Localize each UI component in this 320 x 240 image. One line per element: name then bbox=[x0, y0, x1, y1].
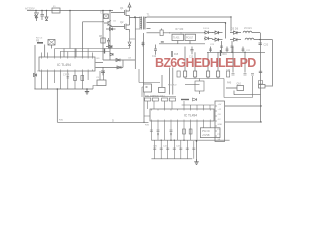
IC1 top pins bbox=[42, 49, 93, 58]
capacitor C12 bbox=[152, 45, 157, 59]
capacitor C5 bbox=[100, 12, 108, 19]
diode pair D12 bbox=[204, 31, 213, 40]
svg-text:Q1: Q1 bbox=[120, 7, 124, 10]
svg-text:C42: C42 bbox=[176, 146, 181, 148]
diode D8 snubber bbox=[110, 53, 113, 56]
wire IC2 upper links bbox=[144, 97, 214, 117]
svg-text:C9: C9 bbox=[96, 77, 100, 79]
svg-text:PW OK: PW OK bbox=[202, 130, 210, 133]
capacitor bank verticals bbox=[209, 41, 245, 52]
svg-text:PC: PC bbox=[153, 96, 156, 98]
rectifier diodes D13 D14 bbox=[212, 31, 223, 41]
svg-text:R30: R30 bbox=[59, 120, 64, 122]
wire sense drops bbox=[185, 47, 245, 73]
ground IC1 bbox=[85, 89, 89, 94]
wire secondary rail 2 bbox=[147, 22, 226, 38]
svg-text:+5VSB: +5VSB bbox=[202, 134, 210, 137]
IC2 bottom pins bbox=[151, 121, 210, 140]
svg-text:GND: GND bbox=[218, 124, 223, 126]
label specks bbox=[36, 21, 251, 148]
wire mid row bbox=[167, 32, 206, 33]
wire lower AC rail bbox=[83, 22, 105, 52]
svg-text:Q10: Q10 bbox=[237, 84, 242, 86]
transistor Q12 bbox=[195, 79, 204, 95]
inductor L1 bbox=[243, 31, 260, 33]
watermark bbox=[155, 56, 256, 70]
wire secondary mid line bbox=[147, 32, 160, 34]
capacitor C30 bbox=[226, 70, 262, 73]
wire secondary tap 3 bbox=[147, 28, 151, 30]
svg-text:Q2: Q2 bbox=[120, 21, 124, 24]
op-amp U2 IC TL494 bbox=[150, 109, 214, 121]
wire IC1 ground rail bbox=[34, 88, 93, 90]
resistor R15 bbox=[172, 51, 179, 57]
ground bottom bbox=[194, 159, 199, 165]
svg-text:D5 D6: D5 D6 bbox=[231, 28, 239, 31]
capacitor C6 primary bbox=[107, 38, 110, 45]
node label L5 bbox=[244, 27, 252, 30]
svg-text:R35: R35 bbox=[145, 125, 150, 127]
wire secondary rail 1 bbox=[145, 17, 231, 32]
svg-text:IC TL494: IC TL494 bbox=[57, 63, 71, 67]
transformer T1 bbox=[140, 13, 150, 30]
node AC input label bbox=[25, 7, 35, 11]
transistor Q10 bbox=[226, 84, 261, 95]
svg-text:C20: C20 bbox=[264, 44, 269, 47]
resistor row above IC2 bbox=[145, 95, 197, 101]
wire secondary to lower block bbox=[139, 69, 160, 83]
diode D2 to rail bbox=[128, 3, 131, 8]
resistor R5 bbox=[36, 40, 43, 43]
connector block PW bbox=[200, 128, 220, 138]
driver transformer T2 bbox=[48, 40, 55, 46]
svg-text:C22: C22 bbox=[246, 50, 251, 52]
svg-text:AC220V: AC220V bbox=[25, 7, 35, 11]
wire IC2 mid rail bbox=[151, 139, 229, 141]
svg-text:L5 C21: L5 C21 bbox=[244, 27, 252, 30]
node corner box bbox=[259, 85, 274, 89]
amplifier cluster mid right bbox=[232, 74, 247, 76]
resistor R8 primary bbox=[99, 36, 105, 43]
node label cluster R-C bbox=[176, 28, 184, 31]
svg-text:D3 D4: D3 D4 bbox=[203, 28, 210, 30]
transistor Q3 driver bbox=[104, 21, 111, 27]
resistor row mid right bbox=[177, 71, 230, 85]
svg-text:+12: +12 bbox=[218, 109, 222, 111]
wire output ground rail bbox=[207, 51, 265, 53]
diode D1 bbox=[45, 11, 48, 21]
svg-text:R21 R22: R21 R22 bbox=[168, 85, 177, 87]
connector J1 bbox=[215, 101, 225, 142]
component chain C11 bbox=[142, 42, 145, 47]
components under IC2 bbox=[157, 134, 172, 136]
capacitor C20 bbox=[259, 43, 269, 47]
resistor network box B bbox=[185, 34, 196, 40]
diode D6 left bbox=[34, 74, 37, 77]
diode D10 bbox=[160, 29, 167, 36]
svg-text:C8: C8 bbox=[128, 58, 132, 60]
IC1 bottom pins bbox=[42, 71, 89, 89]
wire feedback risers bbox=[162, 68, 173, 95]
capacitor C7 bbox=[109, 47, 112, 49]
svg-text:R9: R9 bbox=[97, 58, 101, 60]
wire primary bus vertical B bbox=[109, 11, 111, 31]
svg-text:C6: C6 bbox=[113, 21, 117, 23]
resistor network box A bbox=[172, 34, 184, 40]
optocoupler U3 bbox=[144, 84, 152, 92]
transistor Q1 switch bbox=[111, 7, 130, 18]
fuse F1 bbox=[52, 6, 60, 13]
wire Q2 lower link bbox=[130, 29, 140, 42]
wire IC1 top bus bbox=[55, 47, 130, 52]
svg-text:D: D bbox=[112, 119, 114, 123]
wire long bottom link bbox=[57, 89, 148, 123]
capacitor bank under IC2 bbox=[153, 140, 195, 159]
capacitor block right of IC1 bbox=[93, 71, 106, 89]
transistor Q2 switch bbox=[111, 18, 130, 33]
svg-text:PS: PS bbox=[218, 134, 221, 136]
svg-text:C30: C30 bbox=[226, 70, 231, 72]
svg-text:C41: C41 bbox=[163, 146, 168, 148]
svg-text:PG: PG bbox=[218, 129, 221, 131]
diode D4 bbox=[106, 28, 116, 31]
capacitor C1 bbox=[41, 11, 44, 21]
svg-text:C40: C40 bbox=[153, 146, 158, 148]
svg-text:C R R: C R R bbox=[63, 75, 70, 77]
diode D11 bbox=[159, 41, 205, 44]
diode D7 snubber bbox=[106, 45, 112, 48]
svg-text:TL431: TL431 bbox=[173, 38, 180, 40]
svg-text:C23: C23 bbox=[210, 44, 215, 46]
svg-text:R7 330: R7 330 bbox=[176, 28, 184, 31]
snubber cluster bbox=[96, 59, 136, 76]
rectifier diodes D15 D16 bbox=[230, 28, 241, 42]
resistor R20 bbox=[159, 88, 166, 93]
svg-text:IC TL494: IC TL494 bbox=[184, 114, 197, 118]
wire startup feed vertical bbox=[69, 11, 71, 49]
svg-text:R40: R40 bbox=[227, 83, 232, 85]
wire connector links bbox=[225, 106, 261, 122]
wire primary bus vertical A bbox=[102, 11, 104, 46]
resistors under IC1 bbox=[63, 75, 84, 81]
svg-text:R2 C3: R2 C3 bbox=[36, 38, 43, 40]
svg-text:BZ6GHEDHLELPD: BZ6GHEDHLELPD bbox=[155, 56, 256, 70]
op-amp U1 IC TL494 bbox=[39, 57, 95, 71]
svg-text:PC817: PC817 bbox=[186, 38, 194, 40]
svg-text:T1: T1 bbox=[147, 13, 151, 17]
wire left drop bbox=[34, 45, 36, 89]
svg-text:+5V: +5V bbox=[218, 104, 222, 106]
diode D9 bbox=[128, 42, 131, 47]
wire drain link bbox=[130, 17, 141, 60]
wire lower risers bbox=[142, 87, 143, 97]
wire bottom rail extension bbox=[196, 141, 198, 159]
resistor R16 bbox=[221, 50, 228, 56]
wire IC2 bottom rail bbox=[151, 158, 192, 160]
wire mid-right net bbox=[218, 74, 254, 98]
varistor RV1 bbox=[34, 11, 39, 22]
wire top AC rail bbox=[27, 10, 113, 12]
wire startup links bbox=[45, 30, 110, 60]
wire output vertical right bbox=[261, 40, 273, 86]
svg-text:-12: -12 bbox=[218, 119, 222, 121]
resistor R9 snubber bbox=[104, 49, 106, 54]
node label D bbox=[112, 119, 114, 123]
transistor Q11 bbox=[227, 81, 263, 85]
wire output vertical mid bbox=[260, 33, 262, 122]
svg-text:-5V: -5V bbox=[218, 114, 222, 116]
capacitor C13 bbox=[189, 47, 194, 59]
inductor L2 bbox=[245, 38, 260, 40]
wire left feedback vertical bbox=[143, 33, 145, 84]
